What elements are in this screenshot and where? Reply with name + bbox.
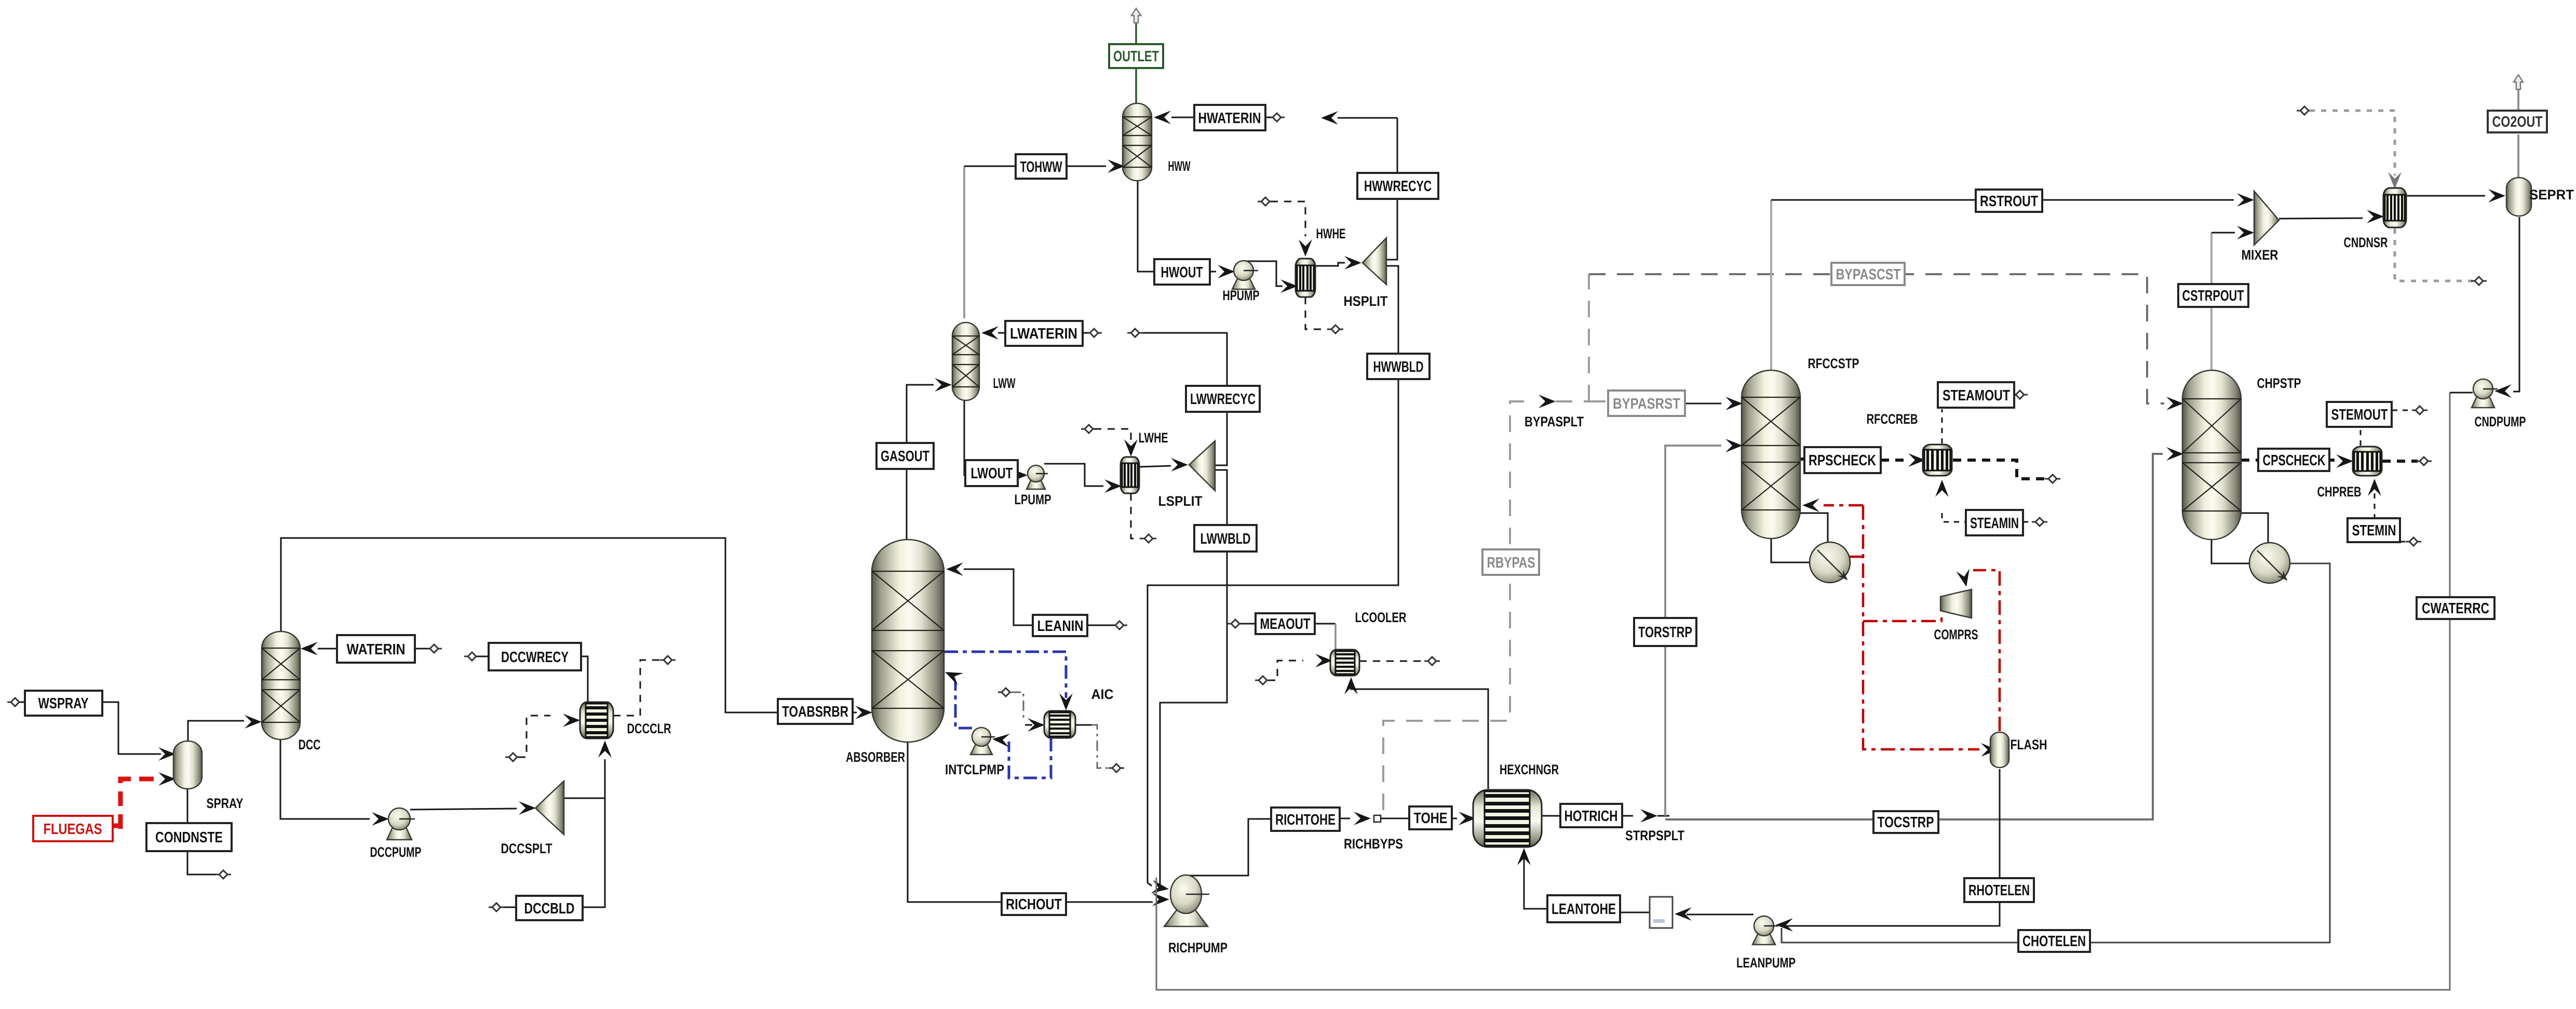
svg-text:BYPASPLT: BYPASPLT [1525,414,1584,429]
svg-text:DCCSPLT: DCCSPLT [501,841,552,856]
svg-text:COMPRS: COMPRS [1934,627,1978,642]
svg-text:LWHE: LWHE [1139,430,1168,446]
svg-text:LEANPUMP: LEANPUMP [1736,955,1796,971]
svg-text:TOHE: TOHE [1414,810,1448,827]
svg-text:GASOUT: GASOUT [881,448,929,465]
svg-text:TOHWW: TOHWW [1020,159,1062,176]
svg-text:RHOTELEN: RHOTELEN [1968,882,2030,899]
svg-text:TOCSTRP: TOCSTRP [1878,814,1934,831]
svg-text:LWOUT: LWOUT [971,465,1013,482]
svg-text:CONDNSTE: CONDNSTE [155,829,223,846]
svg-text:HWOUT: HWOUT [1161,264,1203,281]
svg-text:LSPLIT: LSPLIT [1158,493,1203,509]
svg-text:RICHPUMP: RICHPUMP [1168,940,1228,956]
svg-text:INTCLPMP: INTCLPMP [945,762,1004,777]
svg-text:HWHE: HWHE [1316,226,1346,241]
svg-text:HWW: HWW [1168,158,1191,174]
svg-text:CNDPUMP: CNDPUMP [2475,414,2526,429]
svg-text:AIC: AIC [1091,687,1114,702]
svg-text:TORSTRP: TORSTRP [1638,624,1692,641]
svg-text:ABSORBER: ABSORBER [846,749,905,765]
svg-text:LWATERIN: LWATERIN [1010,326,1077,342]
svg-text:STRPSPLT: STRPSPLT [1625,828,1684,843]
svg-text:LCOOLER: LCOOLER [1355,610,1407,625]
svg-text:STEMIN: STEMIN [2352,522,2396,539]
svg-text:CNDNSR: CNDNSR [2344,235,2388,250]
svg-text:STEAMIN: STEAMIN [1970,515,2019,532]
svg-text:HEXCHNGR: HEXCHNGR [1500,762,1559,777]
svg-text:HWWRECYC: HWWRECYC [1364,178,1432,195]
svg-text:HPUMP: HPUMP [1223,288,1260,303]
svg-text:CHPSTP: CHPSTP [2257,375,2301,391]
svg-text:RICHBYPS: RICHBYPS [1344,836,1403,852]
svg-text:DCCPUMP: DCCPUMP [370,844,422,860]
svg-text:LWWBLD: LWWBLD [1201,531,1251,547]
svg-text:CPSCHECK: CPSCHECK [2263,452,2326,469]
svg-text:MIXER: MIXER [2242,247,2278,263]
svg-text:BYPASRST: BYPASRST [1613,396,1680,412]
svg-text:RSTROUT: RSTROUT [1980,193,2038,210]
svg-text:BYPASCST: BYPASCST [1836,266,1901,283]
svg-text:WSPRAY: WSPRAY [38,695,89,712]
svg-text:CO2OUT: CO2OUT [2492,114,2543,130]
svg-text:STEAMOUT: STEAMOUT [1943,387,2010,404]
svg-text:CHPREB: CHPREB [2317,484,2362,500]
svg-text:RBYPAS: RBYPAS [1487,555,1535,571]
svg-text:DCCCLR: DCCCLR [627,721,671,736]
svg-text:DCCWRECY: DCCWRECY [501,649,569,666]
svg-text:LPUMP: LPUMP [1015,492,1051,507]
svg-text:RICHOUT: RICHOUT [1006,896,1062,913]
svg-text:LEANIN: LEANIN [1037,618,1084,635]
svg-text:HWWBLD: HWWBLD [1373,359,1424,375]
svg-text:STEMOUT: STEMOUT [2331,407,2388,423]
svg-text:RICHTOHE: RICHTOHE [1275,812,1336,828]
svg-text:HWATERIN: HWATERIN [1198,110,1261,127]
svg-text:RFCCREB: RFCCREB [1867,411,1918,427]
svg-text:HSPLIT: HSPLIT [1344,293,1388,309]
svg-text:MEAOUT: MEAOUT [1260,616,1311,633]
svg-text:HOTRICH: HOTRICH [1565,808,1618,825]
svg-text:CHOTELEN: CHOTELEN [2022,933,2086,950]
svg-text:LWW: LWW [993,375,1016,391]
svg-text:LWWRECYC: LWWRECYC [1190,391,1256,408]
svg-text:TOABSRBR: TOABSRBR [782,704,848,720]
svg-text:LEANTOHE: LEANTOHE [1552,901,1616,918]
svg-text:RPSCHECK: RPSCHECK [1809,452,1876,469]
svg-text:WATERIN: WATERIN [347,641,406,658]
svg-text:SEPRT: SEPRT [2529,187,2574,203]
svg-text:DCC: DCC [299,737,321,752]
svg-text:CSTRPOUT: CSTRPOUT [2182,288,2244,304]
svg-text:OUTLET: OUTLET [1113,48,1159,65]
svg-text:FLASH: FLASH [2011,737,2047,752]
svg-text:DCCBLD: DCCBLD [524,900,575,917]
svg-text:RFCCSTP: RFCCSTP [1808,356,1859,371]
svg-text:SPRAY: SPRAY [207,796,244,811]
svg-text:FLUEGAS: FLUEGAS [44,821,102,838]
svg-text:CWATERRC: CWATERRC [2422,600,2489,617]
